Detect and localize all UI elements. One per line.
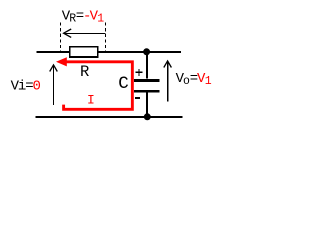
capacitor C top wire: [146, 52, 148, 79]
svg-text:R: R: [80, 63, 89, 81]
capacitor minus sign: [135, 97, 140, 99]
VR measurement arrow: [64, 29, 105, 37]
label Vi=0: [11, 79, 41, 95]
svg-text:I: I: [87, 93, 95, 108]
svg-text:C: C: [118, 74, 129, 94]
capacitor plus sign: [135, 69, 142, 76]
wire top: [37, 51, 182, 53]
label Vo=V1: [176, 71, 212, 88]
dashed guide right: [105, 23, 107, 53]
svg-text:Vi=: Vi=: [11, 79, 34, 95]
Vi arrow: [50, 65, 58, 105]
label VR=-V1: [62, 9, 105, 26]
node top (junction dot): [143, 48, 150, 55]
node bottom (junction dot): [144, 113, 151, 120]
capacitor C top plate: [134, 79, 160, 82]
capacitor C bottom wire: [146, 92, 148, 117]
resistor R: [70, 47, 98, 57]
Vo arrow: [164, 61, 172, 102]
svg-text:0: 0: [33, 79, 41, 95]
red current arrow (loop I): [56, 57, 132, 109]
dashed guide left: [60, 23, 62, 53]
wire bottom: [36, 116, 183, 118]
capacitor C bottom plate: [134, 90, 160, 93]
